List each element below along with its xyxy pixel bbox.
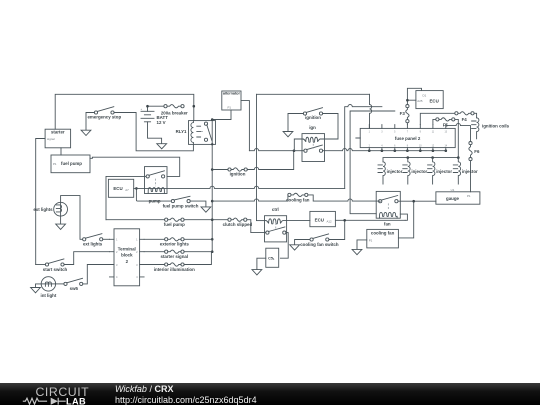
- svg-text:ignition coils: ignition coils: [482, 123, 510, 128]
- inductor ignition coils: [472, 118, 510, 139]
- fuse 200a breaker: [161, 105, 188, 116]
- CircuitLab logo: [22, 385, 94, 405]
- wire top-left rail net: [55, 94, 195, 129]
- svg-text:A12: A12: [327, 219, 333, 223]
- svg-text:start switch: start switch: [43, 267, 68, 272]
- wire fan switch right to gauge and cooling fan motor: [398, 200, 436, 238]
- wire C5 left to ground: [257, 258, 266, 269]
- wire injector bus: [383, 156, 460, 162]
- svg-text:P1: P1: [53, 162, 57, 166]
- wire ignition switch left to ground: [288, 114, 303, 132]
- injector 1: [378, 162, 403, 184]
- fuse F4: [455, 112, 474, 122]
- footer bar: [0, 383, 540, 405]
- wire interior illumination fuse right up to starter signal row: [184, 252, 211, 265]
- svg-text:12: 12: [432, 145, 435, 147]
- battery BATT 12V: [141, 105, 169, 144]
- relay RLY1: [176, 121, 216, 145]
- wire ign coil left to junction: [294, 139, 302, 151]
- ground at C5: [252, 270, 262, 275]
- svg-text:starter signal: starter signal: [161, 254, 189, 259]
- wire switch row west segment to fuel pump switch bus: [212, 199, 288, 201]
- wire rail to fuse panel pin1 with hops: [370, 94, 372, 128]
- svg-text:signal: signal: [47, 137, 55, 141]
- wire start switch left: [36, 264, 46, 266]
- svg-text:4: 4: [381, 145, 383, 147]
- svg-text:D1: D1: [423, 93, 427, 97]
- wire fuse panel pin5 down to fan relay coil left: [350, 111, 395, 214]
- svg-text:Terminal: Terminal: [118, 246, 136, 251]
- fuse clutch slipped: [223, 218, 253, 227]
- wire ctrl coil right to ECU A12 left: [287, 220, 310, 222]
- cooling fan motor box: [367, 229, 399, 248]
- svg-text:F3: F3: [400, 111, 406, 116]
- wire ECU right pin long row to ignition key line: [134, 186, 345, 188]
- svg-text:ign: ign: [309, 125, 316, 130]
- wire F3 bottom to panel pin7: [406, 123, 408, 125]
- wire fan coil right jog to row: [400, 214, 407, 220]
- injector 2: [403, 158, 428, 184]
- svg-text:clutch slipped: clutch slipped: [223, 222, 253, 227]
- svg-text:cooling fan: cooling fan: [371, 230, 395, 235]
- svg-text:9: 9: [420, 132, 422, 134]
- svg-text:ctrl: ctrl: [272, 207, 279, 212]
- wire fuse panel pin3 to ECU row east end: [345, 104, 382, 188]
- svg-text:3: 3: [381, 132, 383, 134]
- wire ext lights lamp bottom to ground: [60, 216, 62, 224]
- wire fuel pump fuse right / clutch fuse left row: [184, 219, 228, 221]
- svg-text:11: 11: [432, 132, 435, 134]
- svg-text:4: 4: [136, 275, 138, 279]
- wire exterior lights fuse right to center bus: [184, 238, 212, 240]
- ground at ext lights lamp: [56, 224, 66, 229]
- wire F4 right to ignition coils: [474, 113, 477, 118]
- svg-text:1: 1: [369, 132, 371, 134]
- wire pump switch loop to fuel pump fuse: [106, 219, 165, 221]
- svg-text:200a breaker: 200a breaker: [161, 110, 188, 115]
- lamp ext lights: [33, 202, 67, 216]
- wire starter signal to left vertical: [36, 139, 45, 265]
- wire starter bottom to fuel pump: [60, 148, 62, 155]
- svg-text:5: 5: [394, 132, 396, 134]
- svg-text:3: 3: [116, 263, 118, 267]
- relay fan: [376, 191, 400, 226]
- ECU U3 box A12: [310, 211, 336, 226]
- svg-text:1: 1: [136, 238, 138, 242]
- svg-text:ECU: ECU: [113, 186, 122, 191]
- wire pump switch left loop to fuel pump switch row: [106, 176, 146, 219]
- svg-text:injector: injector: [387, 169, 403, 174]
- switch sw: [64, 278, 83, 291]
- svg-text:F4: F4: [462, 117, 468, 122]
- wire emergency stop left to ground: [86, 113, 94, 131]
- wire alternator right down to ign relay feed row: [241, 101, 295, 152]
- svg-text:2: 2: [369, 145, 371, 147]
- svg-text:pump: pump: [149, 199, 161, 204]
- wire fan switch left: [379, 200, 381, 202]
- wire fuel pump right to pump relay switch: [90, 157, 180, 176]
- wire cooling fan motor left to ground: [357, 240, 367, 249]
- svg-text:fan: fan: [384, 221, 391, 226]
- svg-text:ext lights: ext lights: [33, 207, 53, 212]
- lamp int light: [40, 277, 56, 298]
- wire ctrl switch right to C5: [280, 233, 288, 259]
- fuse panel 2 box: [357, 125, 456, 151]
- relay pump: [145, 167, 168, 204]
- wire ext lights switch to terminal block pin1: [103, 238, 110, 240]
- svg-text:injector: injector: [462, 169, 478, 174]
- switch cooling fan switch: [300, 234, 339, 247]
- fuse exterior lights: [160, 238, 190, 247]
- wire ctrl coil left to rail vertical: [257, 220, 265, 222]
- wire clutch slipped fuse to ctrl switch: [247, 220, 266, 233]
- svg-text:3: 3: [136, 263, 138, 267]
- wire int light left to ground: [36, 284, 42, 287]
- svg-text:10: 10: [419, 145, 422, 147]
- svg-text:starter: starter: [51, 130, 65, 135]
- capacitor unit C5 box: [266, 248, 279, 267]
- ground at cooling fan switch: [290, 245, 300, 250]
- wire top-right rail net: [257, 93, 370, 95]
- fuse F3: [400, 105, 409, 123]
- wire ign switch left pin: [294, 150, 304, 152]
- svg-text:F6: F6: [474, 149, 480, 154]
- wire ign switch right to fuse panel bottom bus: [323, 148, 448, 152]
- ground at cooling fan motor: [352, 249, 362, 254]
- svg-text:fuse panel 2: fuse panel 2: [395, 136, 421, 141]
- ECU U1 box top right: [416, 91, 443, 109]
- svg-text:P1: P1: [228, 105, 232, 109]
- switch emergency stop: [87, 107, 121, 120]
- ground below battery: [157, 144, 167, 149]
- svg-text:fuel pump: fuel pump: [164, 222, 185, 227]
- svg-text:C51: C51: [268, 256, 275, 261]
- svg-text:injector: injector: [436, 169, 452, 174]
- wire int light to sw: [56, 283, 64, 285]
- fuse fuel pump: [164, 218, 185, 227]
- svg-text:ignition: ignition: [305, 115, 321, 120]
- svg-text:U1: U1: [451, 188, 455, 192]
- wire F6 bottom to gauge top: [470, 161, 472, 192]
- ground at emergency stop: [81, 130, 91, 135]
- wire ignition switch right down to ign coil right pin: [323, 114, 338, 140]
- svg-text:ECU: ECU: [430, 98, 439, 103]
- svg-text:14: 14: [445, 145, 448, 147]
- fuse interior illumination: [154, 263, 195, 272]
- svg-text:A7: A7: [125, 188, 129, 192]
- switch start switch: [43, 259, 68, 272]
- wire panel pin9 up to F4: [420, 113, 455, 124]
- svg-text:ignition: ignition: [230, 171, 246, 176]
- wire cooling fan fuse left jog to switch row: [287, 195, 289, 201]
- wire starter signal fuse right to center bus: [184, 251, 212, 253]
- svg-text:interior illumination: interior illumination: [154, 267, 195, 272]
- svg-text:alternator: alternator: [223, 90, 241, 95]
- wire long vertical through RLY1 down left-center bus: [211, 120, 214, 254]
- alternator box: [222, 90, 241, 110]
- wire terminal block right pin3 to interior illumination fuse: [144, 264, 165, 266]
- wire ignition fuse left to center bus: [212, 169, 228, 171]
- relay ign: [302, 125, 325, 161]
- svg-text:BATT: BATT: [157, 115, 169, 120]
- svg-text:A25: A25: [417, 99, 423, 103]
- wire ignition fuse right to ign relay junction: [247, 152, 293, 170]
- wire alternator bottom to RLY1 vertical: [211, 110, 231, 121]
- svg-text:7: 7: [407, 132, 409, 134]
- switch fuel pump switch: [163, 196, 199, 208]
- wire emergency stop right down-left loop to RLY1 coil and ECU row: [114, 113, 193, 202]
- relay ctrl: [265, 207, 287, 242]
- svg-text:6: 6: [394, 145, 396, 147]
- wire F5 right down to injector bus: [455, 119, 458, 157]
- svg-text:int light: int light: [40, 293, 56, 298]
- wire fuel pump switch right to ground: [190, 201, 211, 212]
- fuse F6: [469, 142, 480, 161]
- fuel pump box: [51, 155, 90, 173]
- svg-text:12 V: 12 V: [157, 120, 166, 125]
- wire panel pin13 up to F6 with hop: [446, 123, 471, 141]
- svg-text:exterior lights: exterior lights: [160, 242, 190, 247]
- svg-text:sw5: sw5: [70, 286, 79, 291]
- wire sw right to terminal block pin3: [83, 265, 110, 284]
- svg-text:emergency stop: emergency stop: [87, 114, 121, 119]
- svg-text:1: 1: [116, 238, 118, 242]
- wire panel pin11 up to F5: [433, 119, 436, 124]
- wire cooling fan switch left to ground: [295, 240, 310, 245]
- ground at ignition switch: [283, 132, 293, 137]
- fuse panel left pin stub: [356, 137, 360, 139]
- svg-text:ECU: ECU: [315, 217, 324, 222]
- svg-text:ext lights: ext lights: [83, 242, 103, 247]
- svg-text:2: 2: [136, 250, 138, 254]
- wire F3 top to ECU D1/A25 loop: [406, 88, 421, 104]
- svg-text:RLY1: RLY1: [176, 129, 187, 134]
- svg-text:P1: P1: [467, 194, 471, 198]
- terminal block 2 box: [110, 229, 145, 286]
- fuse F5: [436, 118, 455, 128]
- svg-text:gauge: gauge: [446, 196, 459, 201]
- svg-text:13: 13: [445, 132, 448, 134]
- svg-text:LAB: LAB: [66, 397, 86, 405]
- svg-text:block: block: [121, 253, 133, 258]
- svg-text:4: 4: [116, 275, 118, 279]
- ground at int light: [31, 288, 41, 293]
- svg-text:cooling fan: cooling fan: [286, 197, 310, 202]
- wire terminal block right pin2 to starter signal fuse: [144, 251, 165, 253]
- svg-text:fuel pump: fuel pump: [61, 161, 82, 166]
- gauge U1 box: [436, 188, 480, 204]
- fuse ignition: [228, 168, 247, 176]
- wire ext lights lamp top to ext lights switch: [61, 196, 83, 240]
- svg-text:+: +: [141, 107, 143, 111]
- injector 3: [428, 158, 453, 184]
- wire start switch right to terminal block pin2: [64, 252, 109, 265]
- svg-text:fuel pump switch: fuel pump switch: [163, 203, 199, 208]
- wire cooling fan fuse right jog to switch row then east to fan switch: [308, 195, 379, 201]
- svg-text:2: 2: [126, 259, 129, 264]
- switch ext lights: [83, 234, 103, 247]
- wire rail to ctrl coil vertical: [256, 94, 258, 220]
- fuse starter signal: [161, 250, 189, 259]
- svg-text:cooling fan switch: cooling fan switch: [300, 242, 339, 247]
- svg-text:injector: injector: [411, 169, 427, 174]
- wire terminal block right pin1 to exterior lights fuse: [144, 238, 165, 240]
- switch ignition: [303, 108, 322, 120]
- wire ECU A12 right to fan coil row: [335, 219, 405, 221]
- svg-text:8: 8: [407, 145, 409, 147]
- fuse cooling fan: [286, 193, 310, 202]
- svg-text:P1: P1: [369, 239, 373, 243]
- wire cooling fan switch right up to fan coil row: [329, 219, 346, 240]
- ECU U2 box: [108, 179, 133, 197]
- starter box: [45, 129, 71, 148]
- injector 4: [453, 158, 478, 184]
